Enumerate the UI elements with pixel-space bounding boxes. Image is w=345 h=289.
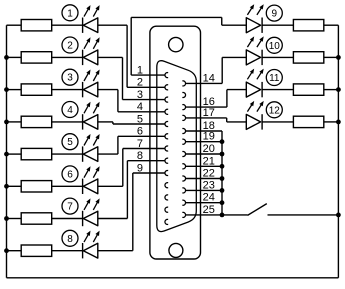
svg-text:2: 2 — [67, 41, 73, 52]
resistor R8 — [21, 245, 52, 256]
wire bus to R3 — [7, 89, 22, 91]
svg-text:23: 23 — [203, 179, 215, 191]
label circle 8 — [62, 230, 78, 246]
LED D2 triangle — [83, 50, 98, 65]
svg-text:5: 5 — [137, 113, 143, 125]
resistor R2 — [21, 52, 52, 63]
wire R1 to LED 1 — [52, 24, 83, 26]
J1 pin 1 contact — [165, 73, 168, 78]
LED D4 light arrows — [84, 102, 100, 114]
LED D12 triangle — [246, 114, 260, 129]
J1 pin 20 contact — [182, 151, 185, 156]
LED D7 triangle — [83, 211, 98, 226]
wire J1 pin 21 to tie — [186, 165, 222, 167]
right supply bus wire — [337, 25, 339, 278]
wire top corner down — [221, 17, 223, 25]
wire to J1 pin 4 — [118, 111, 165, 113]
junction left bus row 6 — [4, 184, 9, 189]
J1 insert D-shell — [157, 61, 197, 232]
J1 pin 9 contact — [165, 170, 168, 175]
svg-text:9: 9 — [272, 9, 278, 20]
LED D1 (cathode bar) — [82, 18, 84, 33]
wire J1 pin 20 to tie — [186, 153, 222, 155]
svg-text:5: 5 — [67, 137, 73, 148]
resistor R1 — [21, 20, 52, 31]
junction right bus row 12 — [336, 120, 341, 125]
label circle 11 — [266, 70, 282, 86]
LED D7 (cathode bar) — [82, 211, 84, 226]
wire R6 to LED 6 — [52, 185, 83, 187]
J1 pin 21 contact — [182, 164, 185, 169]
wire vertical to pin 9 row — [132, 173, 134, 251]
svg-text:12: 12 — [269, 105, 281, 116]
LED D3 (cathode bar) — [82, 82, 84, 97]
svg-text:1: 1 — [67, 8, 73, 19]
svg-text:4: 4 — [137, 101, 143, 113]
J1 pin 15 contact — [182, 92, 185, 97]
J1 pin 16 contact — [182, 105, 185, 110]
junction right bus switch row — [336, 213, 341, 218]
wire to J1 pin 7 — [123, 148, 165, 150]
wire tie to switch S1 — [222, 214, 248, 216]
svg-text:7: 7 — [137, 138, 143, 150]
svg-text:22: 22 — [203, 168, 215, 180]
wire J1 pin 16 to LED 11 — [186, 106, 227, 108]
ground tie vertical wire — [221, 131, 223, 215]
resistor R12 — [293, 116, 323, 127]
svg-text:21: 21 — [203, 155, 215, 167]
wire bus to R5 — [7, 153, 22, 155]
svg-text:3: 3 — [137, 89, 143, 101]
LED D12 light arrows — [247, 101, 263, 112]
LED D12 (cathode bar) — [261, 114, 263, 129]
wire LED 6 to corner — [98, 185, 123, 187]
svg-text:7: 7 — [67, 202, 73, 213]
junction right bus row 11 — [336, 87, 341, 92]
wire LED 4 to corner — [98, 121, 113, 123]
label circle 6 — [62, 166, 78, 182]
junction left bus row 7 — [4, 216, 9, 221]
wire J1 pin 24 to tie — [186, 202, 222, 204]
svg-text:8: 8 — [137, 150, 143, 162]
wire R7 to LED 7 — [52, 218, 83, 220]
LED D1 light arrows — [84, 5, 100, 17]
J1 pin 17 contact — [182, 115, 185, 120]
label circle 3 — [62, 69, 78, 85]
J1 pin 3 contact — [165, 97, 168, 102]
wire LED 12 to R12 — [262, 121, 293, 123]
resistor R11 — [293, 84, 323, 95]
wire to LED 9 — [222, 24, 247, 26]
J1 pin 24 contact — [182, 200, 185, 205]
J1 bottom mounting hole — [169, 243, 183, 257]
wire R8 to LED 8 — [52, 250, 83, 252]
resistor R7 — [21, 213, 52, 224]
svg-text:20: 20 — [203, 143, 215, 155]
LED D6 (cathode bar) — [82, 179, 84, 194]
wire LED 5 to corner — [98, 153, 118, 155]
wire to J1 pin 6 — [118, 135, 165, 137]
LED D6 triangle — [83, 179, 98, 194]
J1 pin 14 contact — [182, 81, 185, 86]
wire R3 to LED 3 — [52, 89, 83, 91]
svg-text:14: 14 — [203, 72, 215, 84]
wire vertical to pin 3 row — [122, 57, 124, 99]
J1 top mounting hole — [169, 37, 183, 51]
label circle 12 — [266, 102, 282, 118]
J1 pin 5 contact — [165, 121, 168, 126]
svg-text:4: 4 — [67, 105, 73, 116]
wire LED 8 to corner — [98, 250, 133, 252]
junction left bus row 3 — [4, 87, 9, 92]
J1 pin 13 contact — [165, 219, 168, 224]
svg-text:1: 1 — [137, 64, 143, 76]
LED D5 triangle — [83, 147, 98, 162]
LED D4 (cathode bar) — [82, 114, 84, 129]
wire J1 pin 18 to ground tie — [186, 130, 222, 132]
LED D8 triangle — [83, 243, 98, 258]
svg-text:6: 6 — [67, 169, 73, 180]
J1 pin 25 contact — [182, 212, 185, 217]
wire LED 10 to R10 — [262, 56, 293, 58]
wire bus to R4 — [7, 121, 22, 123]
label circle 7 — [62, 198, 78, 214]
svg-text:3: 3 — [67, 73, 73, 84]
wire vertical to pin 6 row — [117, 136, 119, 154]
LED D10 triangle — [246, 50, 260, 65]
wire J1 pin 22 to tie — [186, 178, 222, 180]
wire R9 to right bus — [324, 24, 339, 26]
junction left bus row 5 — [4, 152, 9, 157]
J1 pin 12 contact — [165, 207, 168, 212]
J1 pin 7 contact — [165, 146, 168, 151]
resistor R5 — [21, 148, 52, 159]
LED D5 light arrows — [84, 134, 100, 146]
top wire over connector — [131, 16, 222, 18]
junction left bus row 4 — [4, 120, 9, 125]
label circle 2 — [62, 37, 78, 53]
junction tie pin 21 — [220, 164, 225, 169]
wire bus to R6 — [7, 185, 22, 187]
LED D4 triangle — [83, 115, 98, 130]
J1 pin 8 contact — [165, 158, 168, 163]
resistor R3 — [21, 84, 52, 95]
LED D9 light arrows — [247, 4, 263, 15]
svg-text:8: 8 — [67, 234, 73, 245]
wire vertical to pin 2 row — [126, 25, 128, 87]
wire J1 pin 25 to tie — [186, 214, 222, 216]
svg-text:24: 24 — [203, 192, 215, 204]
wire J1 pin 1 to top corner — [130, 17, 132, 75]
label circle 4 — [62, 102, 78, 118]
wire J1 pin1 horizontal — [131, 74, 165, 76]
wire vertical to pin 5 row — [112, 122, 114, 124]
wire R11 to right bus — [324, 89, 339, 91]
wire LED 1 to corner — [98, 24, 127, 26]
junction right bus row 10 — [336, 55, 341, 60]
J1 pin 2 contact — [165, 85, 168, 90]
wire bus to R8 — [7, 250, 22, 252]
LED D10 light arrows — [247, 36, 263, 47]
wire J1 pin 19 to tie — [186, 141, 222, 143]
resistor R10 — [293, 52, 323, 63]
junction tie pin 23 — [220, 188, 225, 193]
J1 pin 22 contact — [182, 176, 185, 181]
J1 pin 6 contact — [165, 134, 168, 139]
wire LED 3 to corner — [98, 89, 118, 91]
junction tie pin 22 — [220, 176, 225, 181]
J1 pin 10 contact — [165, 183, 168, 188]
wire R4 to LED 4 — [52, 121, 83, 123]
wire R5 to LED 5 — [52, 153, 83, 155]
label circle 9 — [266, 5, 282, 21]
wire bus to R1 — [7, 24, 22, 26]
label circle 1 — [62, 5, 78, 21]
LED D7 light arrows — [84, 198, 100, 210]
bottom return wire — [7, 277, 339, 279]
LED D2 (cathode bar) — [82, 50, 84, 65]
LED D11 light arrows — [247, 69, 263, 80]
LED D11 triangle — [246, 82, 260, 97]
wire J1 pin 14 to LED 10 — [186, 82, 223, 84]
wire to J1 pin 9 — [133, 172, 165, 174]
resistor R9 — [293, 20, 323, 31]
J1 pin 4 contact — [165, 109, 168, 114]
wire J1 pin 17 to LED 12 — [186, 117, 227, 119]
switch S1 arm — [248, 204, 267, 216]
svg-text:10: 10 — [269, 41, 281, 52]
junction left bus row 2 — [4, 55, 9, 60]
wire LED 9 to R9 — [262, 24, 293, 26]
wire LED 11 to R11 — [262, 89, 293, 91]
svg-text:19: 19 — [203, 131, 215, 143]
LED D5 (cathode bar) — [82, 146, 84, 161]
resistor R6 — [21, 181, 52, 192]
label circle 10 — [266, 37, 282, 53]
LED D2 light arrows — [84, 37, 100, 49]
resistor R4 — [21, 116, 52, 127]
wire R2 to LED 2 — [52, 56, 83, 58]
J1 pin 23 contact — [182, 188, 185, 193]
LED D6 light arrows — [84, 166, 100, 178]
wire LED 2 to corner — [98, 56, 123, 58]
label circle 5 — [62, 134, 78, 150]
connector J1 DB-25 outer shell — [150, 26, 201, 259]
LED D9 triangle — [246, 18, 260, 33]
svg-text:6: 6 — [137, 126, 143, 138]
LED D10 (cathode bar) — [261, 50, 263, 65]
LED D8 light arrows — [84, 231, 100, 243]
wire vertical to pin 7 row — [122, 149, 124, 187]
wire switch S1 to right bus — [268, 214, 339, 216]
wire LED 7 to corner — [98, 218, 128, 220]
wire to J1 pin 2 — [127, 86, 165, 88]
wire to J1 pin 8 — [127, 160, 165, 162]
junction tie pin 24 — [220, 200, 225, 205]
wire vertical to pin 4 row — [117, 90, 119, 112]
junction tie pin 20 — [220, 152, 225, 157]
LED D9 (cathode bar) — [261, 18, 263, 33]
svg-text:25: 25 — [203, 204, 215, 216]
svg-text:9: 9 — [137, 162, 143, 174]
wire R10 to right bus — [324, 56, 339, 58]
svg-text:17: 17 — [203, 107, 215, 119]
wire to J1 pin 5 — [113, 123, 165, 125]
junction left bus row 8 — [4, 248, 9, 253]
wire to J1 pin 3 — [123, 99, 166, 101]
wire J1 pin 23 to tie — [186, 189, 222, 191]
LED D8 (cathode bar) — [82, 243, 84, 258]
LED D3 light arrows — [84, 70, 100, 82]
J1 pin 18 contact — [182, 128, 185, 133]
LED D3 triangle — [83, 82, 98, 97]
LED D1 triangle — [83, 18, 98, 33]
J1 pin 19 contact — [182, 139, 185, 144]
left supply bus wire — [6, 25, 8, 278]
wire bus to R2 — [7, 56, 22, 58]
junction tie pin 19 — [220, 139, 225, 144]
svg-text:11: 11 — [269, 73, 280, 84]
LED D11 (cathode bar) — [261, 82, 263, 97]
wire bus to R7 — [7, 218, 22, 220]
junction tie pin 25 — [220, 213, 225, 218]
wire vertical to pin 8 row — [126, 161, 128, 219]
wire R12 to right bus — [324, 121, 339, 123]
J1 pin 11 contact — [165, 195, 168, 200]
svg-text:2: 2 — [137, 77, 143, 89]
